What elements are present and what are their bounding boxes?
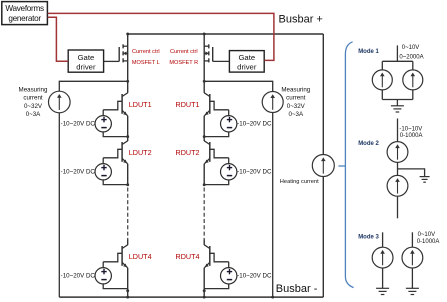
wire left dashed omitted DUT3 (127, 188, 129, 240)
current source mode3 left (372, 247, 393, 268)
brace modes (blue) (345, 42, 353, 288)
node left measure tap (126, 80, 129, 83)
svg-text:Mode 2: Mode 2 (358, 141, 379, 147)
svg-text:0~3A: 0~3A (26, 111, 41, 118)
label 0~10V 0-1000A mode3 (417, 232, 440, 245)
wire RDUT1-RDUT2 segment (203, 116, 205, 141)
voltage source VgL2 -10~20V DC (95, 164, 111, 180)
block Gate driver right (229, 51, 264, 73)
wire VgL4 bottom (103, 283, 128, 288)
svg-text:Current ctrl: Current ctrl (170, 49, 198, 55)
svg-text:driver: driver (76, 63, 96, 72)
wire waveform to right gate driver (red) (48, 13, 274, 60)
svg-text:LDUT4: LDUT4 (129, 252, 152, 261)
svg-text:-10~10V: -10~10V (399, 126, 422, 132)
svg-text:RDUT2: RDUT2 (176, 148, 200, 157)
node VgR2 emitter junction (203, 183, 206, 186)
svg-text:MOSFET R: MOSFET R (169, 60, 198, 66)
svg-text:0~3A: 0~3A (288, 111, 303, 118)
wire mode1 feed (396, 45, 398, 61)
label measuring current left (19, 87, 48, 119)
voltage source VgL4 -10~20V DC (95, 268, 111, 284)
svg-text:current: current (23, 95, 43, 102)
svg-text:Heating current: Heating current (280, 179, 319, 185)
label Current ctrl MOSFET R (169, 49, 198, 66)
transistor LDUT2 (103, 141, 128, 164)
wire mode3 right feed (411, 232, 413, 247)
wire mode1 bottom bus (382, 99, 413, 101)
current source I2 measuring right (262, 92, 283, 113)
wire mode3 left tail (382, 268, 384, 289)
transistor LDUT1 (103, 93, 128, 116)
transistor ctrl MOSFET R (204, 44, 213, 62)
svg-text:RDUT4: RDUT4 (176, 252, 200, 261)
wire waveform to left gate driver (red) (48, 17, 68, 61)
wire gate ctrl MOSFET L (104, 60, 119, 62)
svg-text:current: current (286, 95, 306, 102)
wire left measuring rail (59, 81, 127, 297)
wire VgL1 bottom (103, 131, 128, 136)
svg-text:Measuring: Measuring (281, 87, 310, 94)
wire VgL4 top (102, 262, 104, 268)
wire LDUT4 emitter to busbar- (127, 268, 129, 297)
svg-text:-10~20V DC: -10~20V DC (237, 169, 272, 176)
wire right DUT4 collector segment (203, 240, 205, 246)
svg-text:Gate: Gate (78, 53, 95, 62)
node right measure tap (203, 80, 206, 83)
transistor RDUT2 (204, 141, 229, 164)
transistor LDUT4 (103, 245, 128, 268)
node RDUT4 busbar- junction (203, 296, 206, 299)
wire mode2 ground branch (398, 169, 425, 177)
svg-text:LDUT2: LDUT2 (129, 148, 152, 157)
svg-text:MOSFET L: MOSFET L (132, 60, 160, 66)
wire mode3 left feed (382, 232, 384, 247)
node drain ctrl MOSFET R (203, 33, 206, 36)
svg-text:0~32V: 0~32V (24, 103, 43, 110)
wire mode1 right lower (412, 90, 414, 100)
wire mode1 left lower (381, 90, 383, 100)
block Waveforms generator (2, 2, 48, 25)
wire heating rail right (322, 34, 324, 297)
transistor RDUT1 (204, 93, 229, 116)
node VgL4 emitter junction (126, 289, 129, 292)
wire mode2 mid (397, 162, 399, 175)
wire VgR2 bottom (204, 179, 229, 184)
wire VgR1 bottom (204, 131, 229, 136)
svg-text:Mode 3: Mode 3 (358, 235, 379, 241)
wire mode3 right tail (411, 268, 413, 289)
label 0~10V 0~2000A (399, 45, 423, 61)
wire mode1 left drop (381, 61, 383, 70)
node VgR4 emitter junction (203, 289, 206, 292)
wire LDUT1-LDUT2 segment (127, 116, 129, 141)
transistor ctrl MOSFET L (119, 44, 128, 62)
wire mode1 top bus (382, 60, 413, 62)
current source mode3 right (402, 247, 423, 268)
current source I1 measuring left (49, 91, 71, 113)
wire mode1 ground tap (396, 100, 398, 106)
block Gate driver left (68, 50, 103, 72)
node VgR1 emitter junction (203, 135, 206, 138)
svg-text:Measuring: Measuring (19, 87, 48, 94)
current source mode2 upper (387, 142, 408, 163)
svg-text:0~10V: 0~10V (418, 232, 436, 238)
node VgL1 emitter junction (126, 135, 129, 138)
wire VgR2 top (228, 158, 230, 164)
wire VgL1 top (102, 110, 104, 116)
current source mode1 left (372, 70, 392, 90)
brace tick to heating current (338, 165, 345, 167)
wire left column drain segment (127, 34, 129, 93)
node drain ctrl MOSFET L (126, 33, 129, 36)
svg-text:driver: driver (237, 63, 257, 72)
svg-text:generator: generator (8, 14, 41, 23)
wire VgR1 top (228, 110, 230, 116)
ground mode1 (391, 106, 404, 112)
svg-text:0-1000A: 0-1000A (400, 133, 423, 139)
wire mode2 tail (397, 196, 399, 218)
voltage source VgR1 -10~20V DC (221, 116, 237, 132)
svg-text:Busbar -: Busbar - (276, 283, 318, 295)
wire right dashed omitted DUT3 (203, 188, 205, 240)
wire RDUT2 emitter segment (203, 164, 205, 186)
voltage source VgL1 -10~20V DC (95, 116, 111, 132)
ground mode3 right (406, 288, 419, 294)
label measuring current right (281, 87, 310, 119)
svg-text:0~32V: 0~32V (287, 103, 306, 110)
svg-text:Gate: Gate (238, 53, 255, 62)
svg-text:-10~20V DC: -10~20V DC (237, 273, 272, 280)
voltage source VgR2 -10~20V DC (221, 164, 237, 180)
current source mode1 right (403, 70, 423, 90)
svg-text:-10~20V DC: -10~20V DC (61, 273, 96, 280)
node right rail to busbar- (271, 296, 274, 299)
ground mode2 (420, 177, 430, 183)
ground mode3 left (376, 288, 389, 294)
label Current ctrl MOSFET L (132, 49, 160, 66)
label -10~10V 0-1000A (399, 126, 422, 139)
node VgL2 emitter junction (126, 183, 129, 186)
current source I3 heating (312, 155, 334, 177)
svg-text:Mode 1: Mode 1 (358, 49, 379, 55)
node LDUT4 busbar- junction (126, 296, 129, 299)
wire RDUT4 emitter to busbar- (203, 268, 205, 297)
transistor RDUT4 (204, 245, 229, 268)
svg-text:RDUT1: RDUT1 (176, 100, 200, 109)
svg-text:Waveforms: Waveforms (5, 4, 44, 13)
wire LDUT2 emitter segment (127, 164, 129, 186)
wire gate ctrl MOSFET R (213, 60, 230, 62)
wire Busbar- bottom rail (59, 296, 323, 298)
svg-text:0-1000A: 0-1000A (417, 239, 440, 245)
wire mode1 right drop (412, 61, 414, 70)
current source mode2 lower (387, 175, 408, 196)
wire left DUT4 collector segment (127, 240, 129, 246)
wire mode2 feed (397, 119, 399, 142)
svg-text:Busbar +: Busbar + (279, 13, 323, 25)
wire VgL2 bottom (103, 179, 128, 184)
wire Busbar+ top rail (128, 33, 324, 35)
svg-text:-10~20V DC: -10~20V DC (237, 121, 272, 128)
svg-text:0~10V: 0~10V (402, 45, 420, 51)
wire VgR4 top (228, 262, 230, 268)
svg-text:Current ctrl: Current ctrl (132, 49, 160, 55)
svg-text:0~2000A: 0~2000A (399, 54, 423, 60)
svg-text:-10~20V DC: -10~20V DC (61, 169, 96, 176)
svg-text:LDUT1: LDUT1 (129, 100, 152, 109)
wire right measuring rail (204, 81, 273, 297)
wire VgL2 top (102, 158, 104, 164)
svg-text:-10~20V DC: -10~20V DC (61, 121, 96, 128)
wire right column drain segment (203, 34, 205, 93)
voltage source VgR4 -10~20V DC (221, 268, 237, 284)
wire VgR4 bottom (204, 283, 229, 288)
